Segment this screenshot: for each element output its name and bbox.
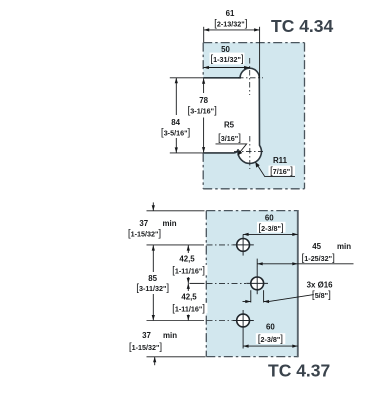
dim 50 line xyxy=(203,67,249,69)
svg-text:60: 60 xyxy=(266,323,275,332)
svg-text:[1-11/16"]: [1-11/16"] xyxy=(172,303,205,314)
svg-text:84: 84 xyxy=(171,118,180,127)
svg-text:R5: R5 xyxy=(224,121,235,130)
bump centerline vertical xyxy=(249,58,251,95)
dim 61 extension left xyxy=(203,27,205,42)
svg-text:min: min xyxy=(163,219,177,228)
hole 1 centerline horizontal extension xyxy=(147,244,205,246)
dim 42,5 lower line xyxy=(187,283,189,320)
svg-text:[1-11/16"]: [1-11/16"] xyxy=(172,265,205,276)
svg-text:min: min xyxy=(337,242,351,251)
dim 84 line xyxy=(175,78,177,153)
R5 leader xyxy=(216,144,247,154)
dim 61 extension right / notch edge line xyxy=(259,27,261,78)
glass panel fill xyxy=(203,43,304,189)
dim 60 bottom bracket label bg xyxy=(256,333,285,344)
dim 60 bottom line xyxy=(243,345,298,347)
svg-text:TC 4.37: TC 4.37 xyxy=(268,361,330,381)
svg-text:37: 37 xyxy=(139,219,148,228)
dim 50 bracket label bg xyxy=(210,53,245,65)
dim 78 line xyxy=(203,78,205,152)
glass edge solid right xyxy=(297,210,299,357)
dim 42,5 upper bracket label bg xyxy=(172,265,208,276)
svg-text:[3/16"]: [3/16"] xyxy=(218,133,241,144)
svg-text:[3-1/16"]: [3-1/16"] xyxy=(188,106,218,117)
dim 61 line xyxy=(204,29,260,31)
svg-text:[2-13/32"]: [2-13/32"] xyxy=(214,19,248,30)
hole 2 centerline vertical xyxy=(256,267,258,295)
svg-text:42,5: 42,5 xyxy=(179,254,195,263)
R11 hole centerline horizontal xyxy=(234,151,263,153)
svg-text:min: min xyxy=(163,331,177,340)
svg-text:45: 45 xyxy=(312,242,321,251)
glass edge dashed top xyxy=(206,210,297,212)
glass edge dashed bottom xyxy=(203,188,304,190)
dim Ø16 outside arrow left xyxy=(243,301,251,303)
cutout notch white fill xyxy=(203,68,261,163)
svg-text:61: 61 xyxy=(226,9,235,18)
dim 37 bottom outside arrow xyxy=(154,357,156,365)
dim 84 extension bottom xyxy=(170,152,203,154)
glass panel fill xyxy=(206,211,297,357)
svg-text:42,5: 42,5 xyxy=(181,293,197,302)
svg-text:[2-3/8"]: [2-3/8"] xyxy=(258,223,284,234)
hole 3 centerline vertical xyxy=(242,310,244,349)
hole 3 xyxy=(237,314,250,327)
svg-text:TC 4.34: TC 4.34 xyxy=(271,16,334,36)
dim 42,5 lower bracket label bg xyxy=(172,303,208,314)
svg-text:78: 78 xyxy=(199,96,208,105)
hole 1 xyxy=(237,239,250,252)
dim 37 top extension line xyxy=(147,210,205,212)
svg-text:[1-15/32"]: [1-15/32"] xyxy=(129,342,163,353)
glass edge dashed left upper xyxy=(202,43,204,78)
dim 85 line xyxy=(152,245,154,320)
glass edge dashed top xyxy=(203,42,304,44)
hole 1 centerline vertical xyxy=(242,234,244,255)
dim 42,5 upper line xyxy=(187,245,189,283)
svg-text:[7/16"]: [7/16"] xyxy=(270,166,293,177)
svg-text:[3-5/16"]: [3-5/16"] xyxy=(161,127,191,138)
cutout outline xyxy=(203,68,261,163)
svg-text:[2-3/8"]: [2-3/8"] xyxy=(258,334,284,345)
dim 60 top line xyxy=(243,233,298,235)
hole 2 xyxy=(251,277,264,290)
svg-text:[5/8"]: [5/8"] xyxy=(312,290,331,301)
svg-text:85: 85 xyxy=(148,274,157,283)
R11 leader xyxy=(257,164,295,177)
dim 45 line xyxy=(257,263,353,265)
bump centerline horizontal xyxy=(238,77,263,79)
dim Ø16 outside arrow right + leader xyxy=(264,295,314,302)
R11 hole centerline vertical xyxy=(249,136,251,169)
glass edge dashed right xyxy=(304,43,306,189)
dim 60 top bracket label bg xyxy=(257,222,286,233)
svg-text:[1-25/32"]: [1-25/32"] xyxy=(302,253,336,264)
dim Ø16 tangent extension right xyxy=(263,290,265,302)
svg-text:[3-11/32"]: [3-11/32"] xyxy=(136,283,169,294)
dim 37 bottom extension line xyxy=(147,356,206,358)
R5 bracket label bg xyxy=(216,132,244,143)
hole 3 centerline horizontal extension xyxy=(147,320,205,322)
glass edge dashed bottom xyxy=(206,356,297,358)
svg-text:60: 60 xyxy=(265,214,274,223)
glass edge dashed left xyxy=(205,211,207,357)
svg-text:[1-31/32"]: [1-31/32"] xyxy=(210,54,244,65)
svg-text:3x Ø16: 3x Ø16 xyxy=(307,280,333,289)
R11 bracket label bg xyxy=(269,166,296,176)
hole 2 centerline horizontal extension xyxy=(190,282,205,284)
svg-text:R11: R11 xyxy=(273,156,288,165)
svg-text:[1-15/32"]: [1-15/32"] xyxy=(128,228,162,239)
dim Ø16 tangent extension left xyxy=(250,290,252,302)
svg-text:37: 37 xyxy=(142,331,151,340)
dim 37 top outside arrow xyxy=(152,202,154,210)
dim 45 extension xyxy=(256,259,258,267)
glass edge dashed left lower xyxy=(202,153,204,189)
dim 84 extension top xyxy=(170,77,203,79)
